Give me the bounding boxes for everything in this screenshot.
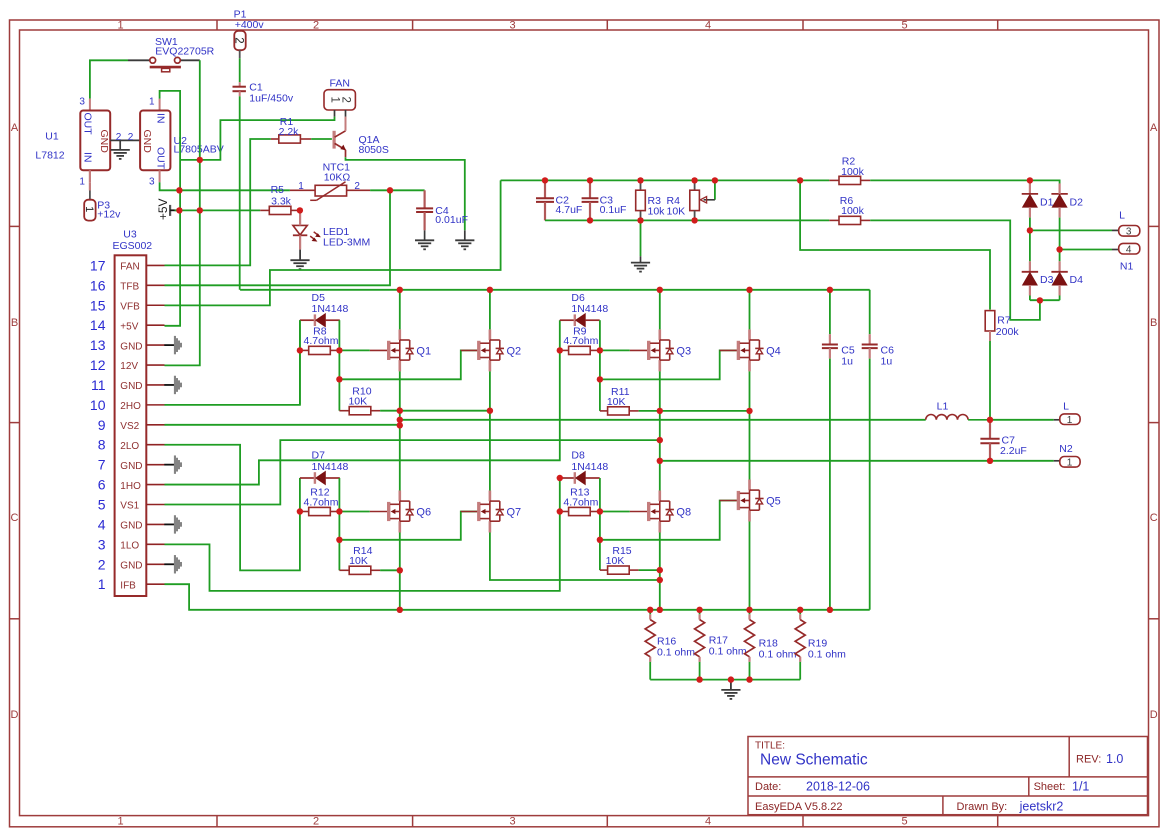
svg-text:2: 2 xyxy=(98,556,106,572)
svg-text:0.01uF: 0.01uF xyxy=(435,214,468,226)
diode D6 1N4148 xyxy=(560,292,609,327)
svg-text:R16: R16 xyxy=(657,635,676,647)
svg-text:Q2: Q2 xyxy=(507,346,522,358)
svg-text:1u: 1u xyxy=(841,356,853,368)
wire IFB to shunt bus xyxy=(165,584,870,610)
svg-text:4.7ohm: 4.7ohm xyxy=(563,335,598,347)
svg-text:L7812: L7812 xyxy=(35,150,64,162)
MOSFET Q2 xyxy=(461,329,521,371)
connector FAN xyxy=(324,78,355,117)
svg-text:10K: 10K xyxy=(606,555,625,567)
wire U1 OUT to SW1 xyxy=(90,60,128,98)
svg-text:1: 1 xyxy=(298,181,304,192)
svg-text:R18: R18 xyxy=(759,637,778,649)
MOSFET Q8 xyxy=(630,491,691,533)
wire R8 to Q1 gate xyxy=(339,349,369,351)
svg-text:D7: D7 xyxy=(312,450,326,462)
MOSFET Q7 xyxy=(461,491,521,533)
svg-text:1: 1 xyxy=(1067,415,1073,426)
svg-text:IN: IN xyxy=(82,152,94,163)
wire Q1 gate to Q2 gate xyxy=(339,350,477,379)
ground (U1/U2 GND pins) xyxy=(110,132,140,150)
wire 12V feed to U2 IN / +5V column xyxy=(160,91,181,326)
svg-text:4: 4 xyxy=(98,516,106,532)
wire gate node to R11 xyxy=(599,350,601,411)
wire Q5 source to shunt bus xyxy=(749,522,751,610)
resistor R15 10K xyxy=(600,545,639,574)
ground pin 4 xyxy=(164,515,182,533)
wire Q3 gate to Q4 gate xyxy=(600,350,737,379)
svg-text:B: B xyxy=(11,317,18,329)
wire Q8 gate to Q5 gate xyxy=(600,501,737,540)
resistor R13 4.7ohm xyxy=(560,487,600,516)
wire Q8 source to shunt bus xyxy=(659,533,661,610)
wire R6 to D3/D4 cathodes xyxy=(870,220,1040,320)
wire R11 to Q3/Q4 sources xyxy=(639,410,750,412)
svg-text:1u: 1u xyxy=(881,356,893,368)
svg-text:12V: 12V xyxy=(120,361,138,372)
connector L pin 1 xyxy=(990,401,1080,427)
resistor R11 10K xyxy=(600,386,639,415)
svg-text:R7: R7 xyxy=(997,315,1011,327)
svg-text:jeetskr2: jeetskr2 xyxy=(1019,799,1064,813)
wire VS2 to Q1/Q2 source xyxy=(165,424,400,426)
wire N2 row xyxy=(660,460,1054,462)
MOSFET Q4 xyxy=(720,329,781,371)
svg-text:GND: GND xyxy=(120,461,142,472)
wire +HV H-bridge rail xyxy=(240,289,870,291)
wire rail to Q1 drain xyxy=(399,290,401,330)
svg-text:TFB: TFB xyxy=(120,282,139,293)
ground symbol below U1/U2 xyxy=(111,150,130,159)
svg-text:VFB: VFB xyxy=(120,301,140,312)
capacitor C4 0.01uF xyxy=(416,190,468,230)
wire bridge output to L1 xyxy=(400,419,926,421)
svg-text:L: L xyxy=(1063,401,1069,413)
resistor R6 100k xyxy=(829,195,870,225)
wire R3 to ground xyxy=(640,220,642,256)
wire R12 to Q6 gate xyxy=(339,511,369,513)
diode D8 1N4148 xyxy=(560,450,609,485)
wire D3 to bottom rail xyxy=(1029,285,1031,296)
wire Q1A emitter to ground xyxy=(346,157,465,230)
MOSFET Q5 xyxy=(720,480,781,522)
svg-text:Q4: Q4 xyxy=(766,346,781,358)
resistor R14 10K xyxy=(339,545,380,574)
svg-text:D5: D5 xyxy=(312,292,326,304)
svg-text:4: 4 xyxy=(705,19,711,31)
junction dots: upper gate drives xyxy=(297,347,753,414)
ground below Q1A emitter xyxy=(455,240,474,249)
diode D7 1N4148 xyxy=(300,450,349,485)
wire C6 to shunt bus xyxy=(869,359,871,610)
svg-text:4: 4 xyxy=(1126,245,1132,256)
wire D6/R9 right node xyxy=(599,320,601,350)
wire R9 to Q3 gate xyxy=(600,349,630,351)
switch SW1 EVQ22705R xyxy=(128,36,215,72)
svg-text:200k: 200k xyxy=(996,326,1020,338)
diode D5 1N4148 xyxy=(300,292,349,327)
wire gate node to R14 xyxy=(338,512,340,571)
svg-text:1N4148: 1N4148 xyxy=(312,303,349,315)
LED LED1 LED-3MM xyxy=(293,212,370,261)
ground pin 13 xyxy=(164,336,182,354)
wire R7 to output L node xyxy=(989,341,991,420)
svg-text:1: 1 xyxy=(98,576,106,592)
svg-text:8050S: 8050S xyxy=(359,144,389,156)
svg-text:11: 11 xyxy=(91,377,106,393)
wire divider bus to R7 xyxy=(800,180,990,309)
wire SW1 output to U3 12V pin xyxy=(165,60,200,365)
svg-text:GND: GND xyxy=(141,130,153,154)
wire C6 column xyxy=(869,290,871,334)
svg-text:4.7ohm: 4.7ohm xyxy=(303,496,338,508)
svg-text:GND: GND xyxy=(120,381,142,392)
svg-text:10K: 10K xyxy=(667,205,686,217)
wire D1 column xyxy=(1029,180,1031,194)
svg-text:2018-12-06: 2018-12-06 xyxy=(806,779,870,793)
svg-text:Q3: Q3 xyxy=(676,346,691,358)
svg-text:D: D xyxy=(11,709,19,721)
wire rail to Q2 drain xyxy=(489,290,491,330)
svg-text:9: 9 xyxy=(98,417,106,433)
junction dots: shunt bus xyxy=(397,607,834,683)
svg-text:1.0: 1.0 xyxy=(1106,752,1123,766)
svg-text:R5: R5 xyxy=(271,184,285,196)
U3 pin stubs, names and numbers xyxy=(90,257,165,592)
svg-text:2: 2 xyxy=(340,97,352,103)
capacitor C7 2.2uF xyxy=(980,420,1026,461)
wire rail to Q3 drain xyxy=(659,290,661,330)
svg-text:5: 5 xyxy=(901,815,907,827)
resistor R9 4.7ohm xyxy=(560,326,600,355)
inductor L1 xyxy=(926,400,990,420)
wire C5 to shunt bus xyxy=(829,359,831,610)
svg-text:2: 2 xyxy=(354,181,360,192)
title block xyxy=(748,737,1148,815)
svg-text:L: L xyxy=(1119,210,1125,222)
svg-text:2.2uF: 2.2uF xyxy=(1000,445,1027,457)
ground below R3 xyxy=(631,263,650,272)
svg-text:VS1: VS1 xyxy=(120,501,139,512)
resistor R16 0.1 ohm xyxy=(645,610,695,680)
svg-text:10K: 10K xyxy=(349,555,368,567)
MOSFET Q1 xyxy=(370,329,431,371)
wire D8/R13 right node xyxy=(599,478,601,512)
svg-text:+400v: +400v xyxy=(235,19,265,31)
ground below LED1 xyxy=(290,260,309,269)
resistor R17 0.1 ohm xyxy=(695,610,747,680)
svg-text:IN: IN xyxy=(155,113,167,124)
connector P1 +400v xyxy=(233,9,265,59)
wire gate node to R10 xyxy=(338,350,340,410)
ground pin 11 xyxy=(164,376,182,394)
resistor R19 0.1 ohm xyxy=(795,610,846,680)
junction dots: +HV rail xyxy=(397,287,834,293)
wire divider lower row xyxy=(545,219,829,221)
svg-text:L7805ABV: L7805ABV xyxy=(174,144,224,156)
svg-text:OUT: OUT xyxy=(82,113,94,136)
svg-text:2.2k: 2.2k xyxy=(279,126,300,138)
svg-text:Sheet:: Sheet: xyxy=(1034,781,1066,793)
svg-text:+5V: +5V xyxy=(120,321,138,332)
resistor R8 4.7ohm xyxy=(300,326,340,355)
svg-text:C: C xyxy=(1150,512,1158,524)
wire R1 to Q1A base xyxy=(311,138,332,140)
wire D4 to bottom rail xyxy=(1058,285,1060,296)
diode D3 xyxy=(1022,272,1054,286)
svg-text:1N4148: 1N4148 xyxy=(571,303,608,315)
svg-text:GND: GND xyxy=(120,560,142,571)
resistor R12 4.7ohm xyxy=(300,487,340,516)
svg-text:EGS002: EGS002 xyxy=(112,240,152,252)
svg-text:B: B xyxy=(1150,317,1157,329)
svg-text:LED-3MM: LED-3MM xyxy=(323,237,370,249)
wire 2LO to D7/R12 xyxy=(165,445,300,571)
wire R13 to Q8 gate xyxy=(600,511,630,513)
svg-text:6: 6 xyxy=(98,477,106,493)
svg-text:17: 17 xyxy=(90,257,106,273)
resistor R2 100k xyxy=(829,155,870,184)
wire 1LO to D8/R13 xyxy=(165,478,560,591)
wire divider bus xyxy=(501,179,830,181)
svg-text:EVQ22705R: EVQ22705R xyxy=(155,46,214,58)
svg-text:1: 1 xyxy=(83,206,95,212)
connector N2 pin 1 xyxy=(660,443,1080,469)
svg-text:1N4148: 1N4148 xyxy=(312,461,349,473)
svg-text:2: 2 xyxy=(313,815,319,827)
svg-text:5: 5 xyxy=(98,497,106,513)
svg-text:1: 1 xyxy=(149,96,155,107)
svg-text:OUT: OUT xyxy=(155,147,167,170)
junction dots: rectifier xyxy=(1027,177,1063,303)
svg-text:2: 2 xyxy=(128,132,134,143)
wire C5 column xyxy=(829,290,831,334)
svg-text:N2: N2 xyxy=(1059,443,1073,455)
regulator U2 L7805ABV xyxy=(140,96,224,187)
svg-text:+12v: +12v xyxy=(97,209,121,221)
MOSFET Q6 xyxy=(370,491,431,533)
capacitor C3 0.1uF xyxy=(582,180,627,220)
diode D4 xyxy=(1051,272,1083,286)
wire FAN pin to R1 xyxy=(165,139,271,265)
svg-text:A: A xyxy=(1150,122,1158,134)
svg-text:L1: L1 xyxy=(937,400,949,412)
svg-text:Q1: Q1 xyxy=(416,346,431,358)
wire rail to Q4 drain xyxy=(749,290,751,330)
svg-text:1: 1 xyxy=(79,177,85,188)
svg-text:1/1: 1/1 xyxy=(1072,779,1089,793)
junction dots: output nodes xyxy=(397,417,994,464)
svg-text:0.1 ohm: 0.1 ohm xyxy=(808,649,846,661)
svg-text:100k: 100k xyxy=(841,166,865,178)
svg-text:5: 5 xyxy=(901,19,907,31)
diode D1 xyxy=(1022,194,1054,208)
resistor R10 10K xyxy=(339,386,380,415)
wire R5 to LED1 xyxy=(299,210,301,211)
capacitor C1 1uF/450v xyxy=(233,82,294,105)
wire NTC1 to C4 xyxy=(370,189,425,191)
svg-text:FAN: FAN xyxy=(120,262,139,273)
svg-text:Q5: Q5 xyxy=(766,496,781,508)
resistor R5 3.3k xyxy=(260,184,300,215)
svg-text:1: 1 xyxy=(1067,458,1073,469)
wire R14 to Q6 source xyxy=(380,569,400,571)
svg-text:10KΩ: 10KΩ xyxy=(324,172,351,184)
svg-text:R19: R19 xyxy=(808,637,827,649)
svg-text:Date:: Date: xyxy=(755,781,781,793)
wire R2 to D1/D2 anodes xyxy=(870,180,1059,194)
svg-text:16: 16 xyxy=(90,277,106,293)
svg-text:Drawn By:: Drawn By: xyxy=(957,801,1008,813)
junction dots: divider bus xyxy=(542,177,804,223)
svg-text:3: 3 xyxy=(509,815,515,827)
svg-text:10: 10 xyxy=(90,397,106,413)
capacitor C6 1u xyxy=(862,345,894,368)
wire 2HO to D5/R8 xyxy=(165,320,300,405)
svg-text:N1: N1 xyxy=(1120,261,1134,273)
wire D5/R8 right node xyxy=(338,320,340,350)
svg-text:+5V: +5V xyxy=(156,198,170,220)
wire D2 to node N1 and D4 xyxy=(1058,183,1060,194)
svg-text:3.3k: 3.3k xyxy=(271,195,292,207)
svg-text:10K: 10K xyxy=(348,396,367,408)
svg-text:1: 1 xyxy=(329,97,341,103)
ground below shunt resistors xyxy=(721,690,740,699)
svg-text:1HO: 1HO xyxy=(120,481,141,492)
connector pin 3 (L) xyxy=(1030,210,1140,238)
svg-text:FAN: FAN xyxy=(329,78,349,90)
regulator U1 L7812 xyxy=(35,96,110,187)
svg-text:4.7ohm: 4.7ohm xyxy=(303,335,338,347)
wire Q7 source to shunt node xyxy=(490,533,660,581)
svg-text:7: 7 xyxy=(98,457,106,473)
svg-text:3: 3 xyxy=(98,536,106,552)
svg-text:10K: 10K xyxy=(607,396,626,408)
svg-text:0.1uF: 0.1uF xyxy=(600,204,627,216)
svg-text:2HO: 2HO xyxy=(120,401,141,412)
svg-text:D8: D8 xyxy=(571,450,585,462)
svg-text:TITLE:: TITLE: xyxy=(755,741,785,752)
transistor Q1A 8050S xyxy=(334,117,389,158)
IC U3 EGS002 xyxy=(112,228,152,596)
svg-text:3: 3 xyxy=(149,177,155,188)
svg-text:4.7ohm: 4.7ohm xyxy=(563,496,598,508)
wire Q2 source to Q7 drain xyxy=(489,371,491,490)
svg-text:Q7: Q7 xyxy=(507,507,522,519)
wire VFB to divider bus xyxy=(165,180,501,305)
wire gate node to R15 xyxy=(599,512,601,571)
svg-text:15: 15 xyxy=(90,297,106,313)
diode D2 xyxy=(1051,194,1083,208)
wire Q4 source to Q5 drain xyxy=(749,371,751,479)
svg-text:1N4148: 1N4148 xyxy=(571,461,608,473)
svg-text:REV:: REV: xyxy=(1076,753,1101,765)
svg-text:10k: 10k xyxy=(648,205,666,217)
wire Q3 source to Q8 drain xyxy=(659,371,661,490)
wire TFB to NTC1 divider node xyxy=(165,190,391,285)
svg-text:12: 12 xyxy=(90,357,106,373)
svg-text:0.1 ohm: 0.1 ohm xyxy=(709,646,747,658)
wire U2 OUT to NTC1 pin 1 xyxy=(160,182,290,190)
wire Q6 source to shunt bus xyxy=(399,533,401,610)
svg-text:1uF/450v: 1uF/450v xyxy=(249,93,294,105)
svg-text:0.1 ohm: 0.1 ohm xyxy=(759,649,797,661)
svg-text:1LO: 1LO xyxy=(120,541,139,552)
capacitor C5 1u xyxy=(822,345,855,368)
wire P1 to C1 xyxy=(239,58,241,82)
svg-text:GND: GND xyxy=(98,130,110,154)
svg-text:New Schematic: New Schematic xyxy=(760,752,868,769)
svg-text:13: 13 xyxy=(90,337,106,353)
wire Q1 source to Q6 drain xyxy=(399,371,401,490)
wire D7/R12 right node xyxy=(338,478,340,512)
svg-text:R17: R17 xyxy=(709,634,728,646)
resistor R3 10k xyxy=(636,180,665,220)
thermistor NTC1 10K xyxy=(290,162,370,201)
resistor R1 2.2k xyxy=(271,116,311,143)
svg-text:2LO: 2LO xyxy=(120,441,139,452)
svg-text:0.1 ohm: 0.1 ohm xyxy=(657,647,695,659)
svg-text:U1: U1 xyxy=(45,130,59,142)
svg-text:Q8: Q8 xyxy=(676,507,691,519)
wire Q6 gate to Q7 gate xyxy=(339,512,477,540)
wire R15 to Q8 source xyxy=(639,569,660,571)
svg-text:3: 3 xyxy=(79,96,85,107)
svg-text:2: 2 xyxy=(116,132,122,143)
svg-text:EasyEDA V5.8.22: EasyEDA V5.8.22 xyxy=(755,801,842,813)
svg-text:2: 2 xyxy=(233,37,245,43)
svg-text:U3: U3 xyxy=(123,228,137,240)
svg-text:4.7uF: 4.7uF xyxy=(556,204,583,216)
MOSFET Q3 xyxy=(630,329,691,371)
ground pin 2 xyxy=(164,555,182,573)
svg-text:1: 1 xyxy=(117,19,123,31)
svg-text:D3: D3 xyxy=(1040,274,1054,286)
wire D1 to node L and D3 xyxy=(1029,207,1031,218)
svg-text:D: D xyxy=(1150,709,1158,721)
wire 12V row to FAN pin 1 xyxy=(180,117,334,160)
ground below C4 xyxy=(415,240,434,249)
wire R10 to Q1/Q2 sources xyxy=(380,410,490,412)
wire D5/R8 left node xyxy=(299,320,301,405)
svg-text:1: 1 xyxy=(117,815,123,827)
svg-text:D6: D6 xyxy=(571,292,585,304)
svg-text:C: C xyxy=(11,512,19,524)
svg-text:VS2: VS2 xyxy=(120,421,139,432)
svg-text:IFB: IFB xyxy=(120,580,136,591)
potentiometer R4 10K xyxy=(667,180,715,220)
junction dots: lower gate drives xyxy=(297,475,663,583)
svg-text:D1: D1 xyxy=(1040,196,1054,208)
svg-text:3: 3 xyxy=(1126,227,1132,238)
wire VS1 to Q3/Q4 source xyxy=(165,440,660,504)
wire 1HO to D6/R9 xyxy=(165,320,560,484)
connector P3 +12v xyxy=(83,182,121,220)
svg-text:100k: 100k xyxy=(841,205,865,217)
svg-text:A: A xyxy=(11,122,19,134)
svg-text:D2: D2 xyxy=(1070,196,1084,208)
svg-text:GND: GND xyxy=(120,521,142,532)
svg-text:Q6: Q6 xyxy=(416,507,431,519)
svg-text:3: 3 xyxy=(509,19,515,31)
connector pin 4 (N1) xyxy=(1060,243,1140,272)
svg-text:14: 14 xyxy=(90,317,106,333)
svg-text:8: 8 xyxy=(98,437,106,453)
svg-text:GND: GND xyxy=(120,341,142,352)
svg-text:2: 2 xyxy=(313,19,319,31)
svg-text:4: 4 xyxy=(705,815,711,827)
